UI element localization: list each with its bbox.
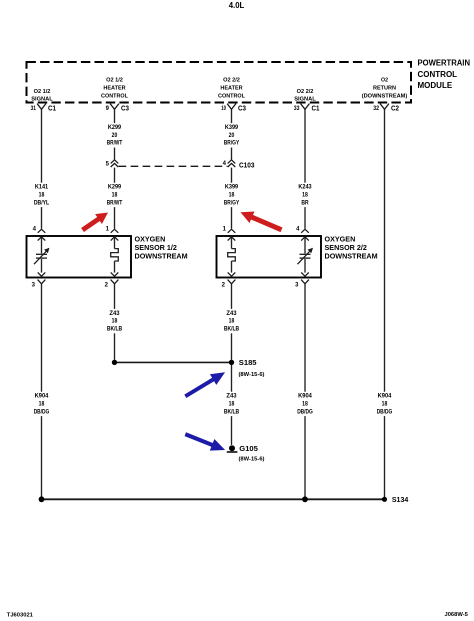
svg-text:18: 18	[229, 319, 235, 325]
svg-text:SENSOR 2/2: SENSOR 2/2	[325, 243, 367, 252]
svg-text:S185: S185	[239, 358, 258, 367]
svg-text:CONTROL: CONTROL	[218, 94, 245, 100]
svg-text:9: 9	[106, 106, 110, 112]
svg-text:C1: C1	[312, 106, 320, 113]
svg-text:OXYGEN: OXYGEN	[325, 234, 356, 243]
svg-text:OXYGEN: OXYGEN	[135, 234, 166, 243]
svg-text:(DOWNSTREAM): (DOWNSTREAM)	[362, 94, 408, 100]
svg-text:K904: K904	[35, 394, 49, 400]
svg-text:20: 20	[112, 133, 118, 139]
svg-text:O2 2/2: O2 2/2	[223, 78, 240, 84]
svg-text:Z43: Z43	[109, 311, 120, 317]
svg-text:K904: K904	[378, 394, 392, 400]
svg-text:C3: C3	[238, 106, 246, 113]
svg-text:18: 18	[302, 193, 308, 199]
svg-text:DB/YL: DB/YL	[34, 200, 50, 206]
svg-text:Z43: Z43	[226, 311, 237, 317]
svg-text:18: 18	[382, 402, 388, 408]
svg-text:POWERTRAIN: POWERTRAIN	[418, 59, 471, 68]
svg-text:31: 31	[31, 106, 37, 112]
svg-text:BK/LB: BK/LB	[224, 327, 240, 333]
svg-text:4: 4	[296, 227, 300, 233]
svg-text:33: 33	[294, 106, 300, 112]
svg-text:(8W-15-6): (8W-15-6)	[239, 456, 265, 462]
svg-text:BK/LB: BK/LB	[224, 409, 240, 415]
svg-text:K243: K243	[298, 185, 312, 191]
svg-text:18: 18	[302, 402, 308, 408]
svg-text:18: 18	[229, 402, 235, 408]
svg-text:1: 1	[106, 227, 110, 233]
svg-text:K399: K399	[225, 125, 239, 131]
svg-text:18: 18	[229, 193, 235, 199]
svg-text:1: 1	[223, 227, 227, 233]
svg-text:K399: K399	[225, 185, 239, 191]
svg-text:SIGNAL: SIGNAL	[31, 97, 53, 103]
svg-text:DOWNSTREAM: DOWNSTREAM	[325, 252, 378, 261]
svg-text:3: 3	[295, 283, 299, 289]
svg-text:MODULE: MODULE	[418, 81, 453, 90]
svg-text:BR/WT: BR/WT	[107, 141, 123, 147]
svg-text:5: 5	[106, 162, 110, 168]
svg-text:4: 4	[223, 161, 227, 167]
svg-text:Z43: Z43	[226, 394, 237, 400]
svg-text:DOWNSTREAM: DOWNSTREAM	[135, 252, 188, 261]
svg-text:BR/GY: BR/GY	[224, 200, 240, 206]
svg-text:BR/WT: BR/WT	[107, 200, 123, 206]
svg-text:J068W-5: J068W-5	[444, 612, 468, 618]
svg-text:CONTROL: CONTROL	[418, 70, 458, 79]
svg-text:3: 3	[32, 283, 36, 289]
svg-text:BR: BR	[301, 200, 309, 206]
svg-text:G105: G105	[239, 444, 258, 453]
svg-text:S134: S134	[392, 497, 408, 504]
svg-text:CONTROL: CONTROL	[101, 94, 128, 100]
svg-text:C1: C1	[48, 106, 56, 113]
svg-text:18: 18	[112, 193, 118, 199]
svg-text:18: 18	[39, 193, 45, 199]
svg-text:4: 4	[33, 227, 37, 233]
svg-text:4.0L: 4.0L	[229, 1, 245, 10]
svg-text:32: 32	[373, 106, 379, 112]
svg-text:K904: K904	[298, 394, 312, 400]
svg-text:K141: K141	[35, 185, 49, 191]
svg-text:DB/DG: DB/DG	[297, 409, 313, 415]
svg-text:18: 18	[39, 402, 45, 408]
svg-text:K299: K299	[108, 125, 122, 131]
svg-text:HEATER: HEATER	[103, 86, 126, 92]
svg-text:HEATER: HEATER	[220, 86, 243, 92]
svg-text:O2: O2	[381, 78, 389, 84]
svg-text:RETURN: RETURN	[373, 86, 396, 92]
svg-text:DB/DG: DB/DG	[377, 409, 393, 415]
svg-text:TJ603021: TJ603021	[7, 612, 34, 618]
svg-text:O2 1/2: O2 1/2	[34, 89, 51, 95]
svg-text:DB/DG: DB/DG	[34, 409, 50, 415]
svg-text:(8W-15-6): (8W-15-6)	[239, 372, 265, 378]
svg-text:18: 18	[112, 319, 118, 325]
svg-text:O2 2/2: O2 2/2	[297, 89, 314, 95]
svg-text:C3: C3	[121, 106, 129, 113]
svg-text:K299: K299	[108, 185, 122, 191]
svg-text:BR/GY: BR/GY	[224, 141, 240, 147]
svg-text:SENSOR 1/2: SENSOR 1/2	[135, 243, 177, 252]
svg-text:O2 1/2: O2 1/2	[106, 78, 123, 84]
svg-text:SIGNAL: SIGNAL	[294, 97, 316, 103]
svg-text:2: 2	[222, 283, 226, 289]
svg-text:C2: C2	[391, 106, 399, 113]
svg-text:2: 2	[105, 283, 109, 289]
svg-text:20: 20	[229, 133, 235, 139]
svg-text:C103: C103	[239, 161, 255, 170]
svg-text:BK/LB: BK/LB	[107, 327, 123, 333]
svg-text:10: 10	[221, 106, 226, 112]
